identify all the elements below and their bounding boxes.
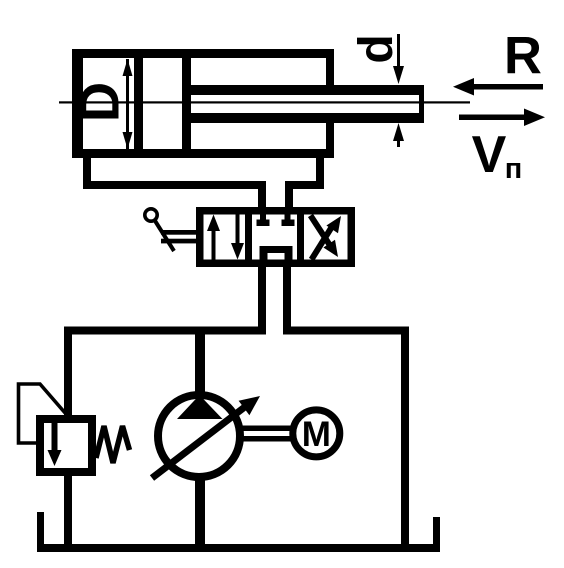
lever fork <box>161 230 196 243</box>
tank left tick <box>37 512 44 544</box>
pipe: return line down <box>401 327 409 545</box>
motor M1 circle <box>293 410 340 457</box>
valve right cell crossed arrow 1 <box>311 216 339 258</box>
valve divider right <box>297 207 304 267</box>
relief valve spring <box>96 426 130 463</box>
velocity arrow Vp <box>459 109 545 127</box>
pipe: pump riser <box>195 334 205 392</box>
pipe: relief branch down <box>64 327 72 416</box>
svg-text:V: V <box>472 126 507 184</box>
relief valve pilot line <box>19 384 67 443</box>
force arrow R <box>453 78 543 96</box>
lever rod <box>155 220 175 251</box>
centerline <box>59 101 470 103</box>
relief valve RV1 body <box>36 415 96 476</box>
piston rod <box>191 85 424 123</box>
svg-text:d: d <box>350 34 403 63</box>
valve center cell blocked port left <box>257 215 270 227</box>
pipe: relief drain <box>64 475 72 545</box>
svg-text:M: M <box>302 415 331 454</box>
pipe: rod-end jog <box>285 181 324 189</box>
relief valve arrow <box>48 423 62 466</box>
pipe: rod-end leg <box>316 155 324 189</box>
dimension arrow d upper <box>393 34 404 84</box>
tank right tick <box>433 517 440 544</box>
svg-text:п: п <box>505 153 523 185</box>
pipe: return rail <box>283 327 408 335</box>
pipe: valve T to rail <box>283 267 291 327</box>
pump variable arrow <box>152 396 260 478</box>
dimension arrow D <box>123 59 133 149</box>
valve center cell blocked port right <box>282 215 295 227</box>
pipe: cap-end horizontal <box>83 181 266 189</box>
pipe: pressure rail <box>64 327 266 335</box>
valve left cell up arrow <box>207 215 220 260</box>
label Vп <box>472 126 523 185</box>
valve right cell crossed arrow 2 <box>312 216 342 260</box>
valve V1 body <box>196 207 355 267</box>
pipe: cap-end leg <box>83 155 91 189</box>
pipe: pump suction <box>195 480 205 545</box>
svg-text:R: R <box>504 27 542 86</box>
piston <box>134 58 191 149</box>
valve left cell down arrow <box>231 215 244 260</box>
pipe: valve port B riser <box>285 181 293 209</box>
valve center cell bypass <box>260 246 293 260</box>
pump triangle <box>177 395 223 419</box>
valve divider left <box>245 207 252 267</box>
pipe: valve port A riser <box>258 181 266 209</box>
pump P1 circle <box>158 395 240 477</box>
dimension arrow d lower <box>393 123 404 147</box>
pipe: valve P to rail <box>258 267 266 327</box>
lever knob <box>145 209 157 221</box>
motor shaft <box>240 426 292 442</box>
tank bottom <box>37 544 440 552</box>
cylinder C1 body <box>72 49 334 158</box>
